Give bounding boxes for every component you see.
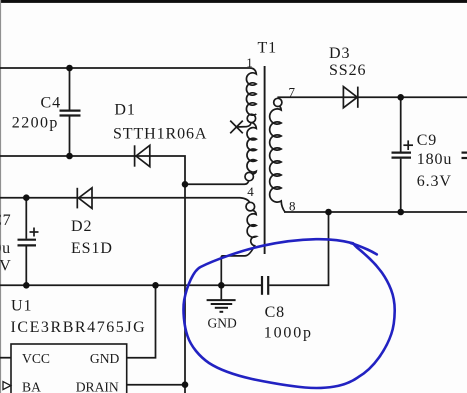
svg-text:GND: GND bbox=[90, 351, 120, 366]
svg-text:D2: D2 bbox=[71, 218, 92, 235]
svg-text:4: 4 bbox=[247, 184, 254, 199]
svg-text:C9: C9 bbox=[417, 132, 437, 149]
svg-text:1: 1 bbox=[246, 55, 253, 70]
svg-text:180u: 180u bbox=[417, 151, 453, 168]
svg-text:7: 7 bbox=[289, 84, 296, 99]
svg-text:25V: 25V bbox=[0, 258, 12, 275]
svg-text:DRAIN: DRAIN bbox=[76, 380, 119, 393]
svg-text:SS26: SS26 bbox=[329, 62, 366, 79]
svg-text:U1: U1 bbox=[11, 298, 32, 315]
svg-text:VCC: VCC bbox=[22, 351, 50, 366]
svg-text:100u: 100u bbox=[0, 240, 11, 257]
svg-text:BA: BA bbox=[22, 380, 41, 393]
svg-text:C8: C8 bbox=[265, 304, 285, 321]
svg-text:STTH1R06A: STTH1R06A bbox=[113, 126, 207, 143]
svg-text:ES1D: ES1D bbox=[71, 240, 113, 257]
svg-text:D1: D1 bbox=[114, 102, 135, 119]
svg-text:1000p: 1000p bbox=[264, 325, 313, 342]
svg-text:8: 8 bbox=[289, 199, 296, 214]
svg-text:T1: T1 bbox=[258, 40, 278, 57]
svg-text:GND: GND bbox=[208, 315, 237, 330]
svg-text:ICE3RBR4765JG: ICE3RBR4765JG bbox=[11, 319, 147, 336]
svg-text:C4: C4 bbox=[41, 95, 61, 112]
svg-text:C7: C7 bbox=[0, 212, 12, 229]
svg-text:6.3V: 6.3V bbox=[417, 173, 452, 190]
svg-text:D3: D3 bbox=[329, 45, 350, 62]
svg-text:2200p: 2200p bbox=[12, 115, 59, 132]
